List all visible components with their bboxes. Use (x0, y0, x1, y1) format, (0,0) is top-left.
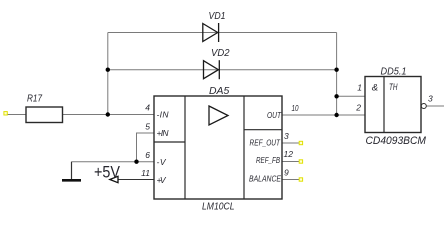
svg-text:TH: TH (389, 82, 398, 92)
DD5 internal divider (383, 77, 385, 133)
svg-text:4: 4 (145, 103, 150, 113)
svg-text:CD4093BCM: CD4093BCM (366, 135, 427, 147)
svg-text:3: 3 (428, 94, 433, 104)
svg-text:5: 5 (145, 122, 150, 132)
svg-text:R17: R17 (27, 93, 43, 105)
gate U DD5.1 body (365, 77, 421, 133)
power +5V arrow (110, 176, 118, 182)
node junction VD2/right bus (334, 68, 338, 72)
node pin3 terminal (yellow) (299, 141, 302, 144)
resistor R17 (26, 107, 63, 123)
wire DD5 pin1 y=96.3 (337, 95, 365, 97)
node pin9 terminal (yellow) (299, 178, 302, 181)
op-amp triangle symbol (209, 106, 228, 125)
wire +IN pin5 L-shape (137, 133, 155, 162)
wire +5V supply to pin11 (117, 179, 154, 181)
ground (62, 162, 81, 181)
node junction main/left bus (106, 112, 110, 116)
svg-text:BALANCE: BALANCE (249, 174, 281, 184)
wire VD2 branch y=69.7 (108, 69, 337, 71)
svg-text:12: 12 (284, 149, 294, 159)
wire main input net y=114.5 (7, 114, 154, 116)
svg-text:+5V: +5V (94, 164, 120, 182)
node junction +IN/ground net (134, 160, 138, 164)
DA5 internal dividers (154, 96, 282, 199)
wire right vertical bus x=336.6 (336, 33, 338, 116)
svg-text:&: & (372, 83, 378, 94)
node junction pin1/right bus (334, 94, 338, 98)
op-amp U DA5 body (154, 96, 282, 199)
wire DA5 pin9 BALANCE stub (282, 179, 301, 181)
svg-text:+V: +V (157, 175, 167, 185)
svg-text:11: 11 (141, 168, 150, 178)
svg-text:+IN: +IN (157, 128, 170, 138)
diode VD1 (203, 23, 219, 42)
svg-text:DA5: DA5 (209, 85, 229, 97)
svg-text:DD5.1: DD5.1 (381, 67, 407, 78)
svg-text:1: 1 (357, 83, 362, 93)
svg-text:6: 6 (145, 150, 150, 160)
node junction VD2/left bus (106, 68, 110, 72)
svg-text:REF_OUT: REF_OUT (250, 137, 281, 147)
wire DA5 pin12 REF_FB stub (282, 161, 301, 163)
svg-text:OUT: OUT (267, 110, 282, 120)
svg-text:3: 3 (284, 131, 289, 141)
node input terminal (yellow) (4, 112, 7, 115)
svg-text:9: 9 (284, 168, 289, 178)
wire ground net y=161.7 (72, 161, 155, 163)
svg-text:REF_FB: REF_FB (256, 155, 280, 165)
svg-text:2: 2 (355, 103, 361, 113)
svg-text:VD2: VD2 (211, 48, 230, 59)
wire left vertical bus x=107.8 (107, 33, 109, 115)
wire DA5 out to DD5 pin2 y=115 (282, 114, 365, 116)
wire VD1 branch y=32.5 (108, 32, 337, 34)
wire DA5 pin3 REF_OUT stub (282, 142, 301, 144)
svg-text:VD1: VD1 (209, 11, 226, 22)
svg-text:-IN: -IN (157, 110, 170, 120)
svg-text:-V: -V (157, 157, 167, 167)
node pin12 terminal (yellow) (299, 160, 302, 163)
wire DD5 output pin3 (427, 105, 445, 107)
svg-text:LM10CL: LM10CL (202, 200, 235, 212)
gate output bubble (421, 104, 426, 109)
svg-text:10: 10 (292, 103, 299, 113)
node junction out/right bus (334, 113, 338, 117)
diode VD2 (204, 60, 220, 79)
